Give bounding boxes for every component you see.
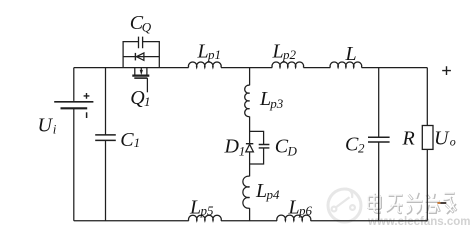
svg-text:L: L xyxy=(259,88,271,110)
capacitor CD plates xyxy=(259,145,270,148)
svg-text:p2: p2 xyxy=(282,47,297,62)
capacitor C2 plates xyxy=(368,137,390,142)
inductor Lp3 xyxy=(245,85,250,116)
capacitor C1 plates xyxy=(95,135,116,141)
inductor Lp4 xyxy=(243,176,250,208)
svg-text:o: o xyxy=(450,134,456,148)
inductor Lp2 xyxy=(272,62,304,68)
svg-text:p4: p4 xyxy=(266,187,281,202)
svg-text:1: 1 xyxy=(134,135,141,150)
svg-text:www.elecfans.com: www.elecfans.com xyxy=(367,216,470,228)
svg-text:1: 1 xyxy=(239,144,246,159)
battery minus tick xyxy=(86,112,88,118)
svg-text:R: R xyxy=(402,128,415,150)
wire C1 branch above xyxy=(105,68,107,135)
wire bottom rail left segment xyxy=(74,220,189,222)
wire middle branch Lp3 to D1 xyxy=(249,117,251,144)
wire top rail segment Lp1 to Lp2 xyxy=(221,67,272,69)
svg-text:i: i xyxy=(53,121,57,136)
svg-text:L: L xyxy=(197,41,209,63)
svg-text:p6: p6 xyxy=(298,203,313,218)
inductor Lp1 xyxy=(188,62,221,68)
transistor Q1 (MOSFET) xyxy=(134,68,136,76)
inductor Lp6 xyxy=(277,215,311,221)
snubber box around CQ / body diode xyxy=(123,42,159,68)
watermark logo circle xyxy=(328,189,361,223)
wire snubber diode branch xyxy=(123,56,159,58)
wire middle branch upper segment xyxy=(249,68,251,86)
output plus sign xyxy=(442,66,451,75)
wire load branch below R xyxy=(426,149,428,220)
output minus sign xyxy=(437,202,440,204)
svg-text:Q: Q xyxy=(130,87,145,109)
watermark brand text 电子发烧友 (approximated strokes) xyxy=(368,192,457,214)
wire top rail right segment xyxy=(362,67,428,69)
svg-text:L: L xyxy=(345,43,357,65)
wire middle branch D1 to Lp4 xyxy=(249,152,251,176)
svg-text:p5: p5 xyxy=(200,203,215,218)
wire top rail segment Lp2 to L xyxy=(303,67,330,69)
svg-text:D: D xyxy=(224,136,240,158)
inductor L xyxy=(330,62,362,68)
wire bottom rail segment Lp5 to Lp6 xyxy=(221,220,277,222)
body diode of Q1 (points left) xyxy=(134,53,136,61)
wire load branch above R xyxy=(426,68,428,126)
wire C2 branch above xyxy=(378,68,380,138)
svg-text:L: L xyxy=(272,41,284,63)
wire middle branch lower segment xyxy=(249,208,251,221)
capacitor CD parallel loop xyxy=(250,131,264,164)
svg-text:2: 2 xyxy=(358,141,365,156)
svg-text:C: C xyxy=(345,134,359,156)
svg-text:L: L xyxy=(189,196,201,218)
wire C2 branch below xyxy=(378,142,380,221)
wire top rail left segment xyxy=(74,67,189,69)
inductor Lp5 xyxy=(189,215,222,221)
svg-text:C: C xyxy=(120,129,134,151)
wire left branch above battery xyxy=(73,68,75,101)
battery plus sign xyxy=(84,93,90,99)
svg-text:Q: Q xyxy=(142,20,152,35)
svg-text:U: U xyxy=(38,115,54,137)
wire left branch below battery xyxy=(73,108,75,221)
resistor R box xyxy=(422,126,433,150)
svg-text:U: U xyxy=(434,128,450,150)
wire C1 branch below xyxy=(105,140,107,220)
svg-text:L: L xyxy=(288,196,300,218)
svg-text:L: L xyxy=(255,180,267,202)
wire bottom rail right segment xyxy=(311,220,428,222)
svg-text:p1: p1 xyxy=(207,47,221,62)
svg-text:p3: p3 xyxy=(269,96,284,111)
voltage source Ui (battery plates) xyxy=(54,101,93,103)
capacitor CQ plates xyxy=(139,37,143,49)
svg-text:1: 1 xyxy=(144,94,151,109)
svg-text:D: D xyxy=(287,143,298,158)
diode D1 xyxy=(246,143,253,145)
